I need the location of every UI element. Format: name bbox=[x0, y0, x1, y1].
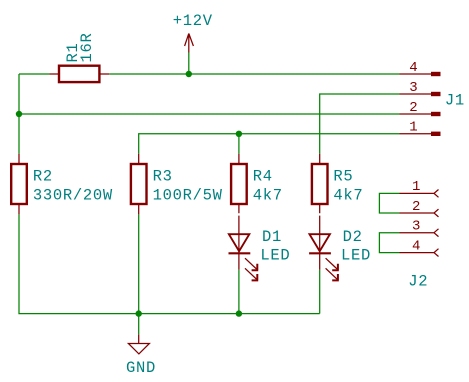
junction at left rail pin2 row bbox=[16, 111, 22, 117]
svg-text:4: 4 bbox=[412, 238, 420, 254]
svg-text:R4: R4 bbox=[253, 167, 273, 185]
svg-text:100R/5W: 100R/5W bbox=[153, 186, 223, 204]
svg-text:R2: R2 bbox=[33, 167, 53, 185]
svg-text:4: 4 bbox=[409, 60, 417, 76]
wire row pin2 y=114 bbox=[19, 113, 400, 115]
resistor R3 bbox=[131, 154, 147, 215]
svg-text:GND: GND bbox=[126, 359, 156, 377]
svg-text:4k7: 4k7 bbox=[253, 186, 283, 204]
svg-text:J1: J1 bbox=[445, 91, 465, 109]
svg-text:LED: LED bbox=[341, 247, 371, 265]
connector J2 pin 3 bbox=[400, 219, 439, 237]
junction at D1 bottom rail bbox=[236, 310, 242, 316]
svg-text:R5: R5 bbox=[333, 167, 353, 185]
connector J2 pin 4 bbox=[400, 238, 439, 256]
svg-text:R3: R3 bbox=[153, 167, 173, 185]
svg-text:D1: D1 bbox=[262, 228, 282, 246]
wire +12V stub bbox=[188, 53, 190, 75]
LED D2 bbox=[309, 216, 339, 281]
power +12V symbol bbox=[185, 34, 194, 53]
svg-text:16R: 16R bbox=[78, 32, 96, 62]
svg-text:2: 2 bbox=[412, 199, 420, 215]
junction at +12V tap bbox=[186, 71, 192, 77]
wire GND stub bbox=[138, 314, 140, 335]
svg-text:1: 1 bbox=[409, 120, 417, 136]
wire J2 jumper pins 3-4 bbox=[379, 233, 399, 253]
wire stub to R4 top bbox=[238, 134, 240, 154]
svg-text:3: 3 bbox=[412, 219, 420, 235]
wire D2 bottom vertical bbox=[319, 270, 321, 314]
wire R2 bottom + bottom rail bbox=[19, 214, 320, 313]
resistor R2 bbox=[11, 154, 27, 215]
connector J1 pin 4 bbox=[400, 60, 441, 76]
connector J2 pin 2 bbox=[400, 199, 439, 217]
resistor R1 bbox=[49, 66, 109, 82]
connector J2 pin 1 bbox=[400, 179, 439, 197]
resistor R4 bbox=[231, 154, 247, 214]
wire R3 bottom vertical bbox=[138, 214, 140, 313]
junction at GND tap bbox=[136, 310, 142, 316]
svg-text:D2: D2 bbox=[343, 228, 363, 246]
ground symbol bbox=[128, 335, 149, 354]
LED D1 bbox=[229, 216, 259, 281]
connector J1 pin 3 bbox=[400, 80, 441, 96]
wire row pin3 y=94 with vertical to R5 bbox=[320, 94, 400, 154]
connector J1 pin 2 bbox=[400, 100, 441, 116]
wire J2 jumper pins 1-2 bbox=[379, 193, 399, 213]
wire top rail y=74 from left corner to J1 pin4 bbox=[19, 73, 400, 75]
wire D1 bottom vertical bbox=[238, 270, 240, 314]
wire row pin1 y=133.8 with corner down to R3 bbox=[139, 134, 400, 154]
junction at R4 top row bbox=[236, 131, 242, 137]
svg-text:330R/20W: 330R/20W bbox=[33, 186, 113, 204]
connector J1 pin 1 bbox=[400, 120, 441, 136]
svg-text:+12V: +12V bbox=[173, 12, 213, 30]
wire left vertical x=19 bbox=[18, 74, 20, 154]
svg-text:1: 1 bbox=[412, 179, 420, 195]
svg-text:3: 3 bbox=[409, 80, 417, 96]
svg-text:J2: J2 bbox=[408, 273, 428, 291]
resistor R5 bbox=[312, 154, 328, 214]
svg-text:2: 2 bbox=[409, 100, 417, 116]
svg-text:LED: LED bbox=[260, 247, 290, 265]
svg-text:4k7: 4k7 bbox=[333, 186, 363, 204]
